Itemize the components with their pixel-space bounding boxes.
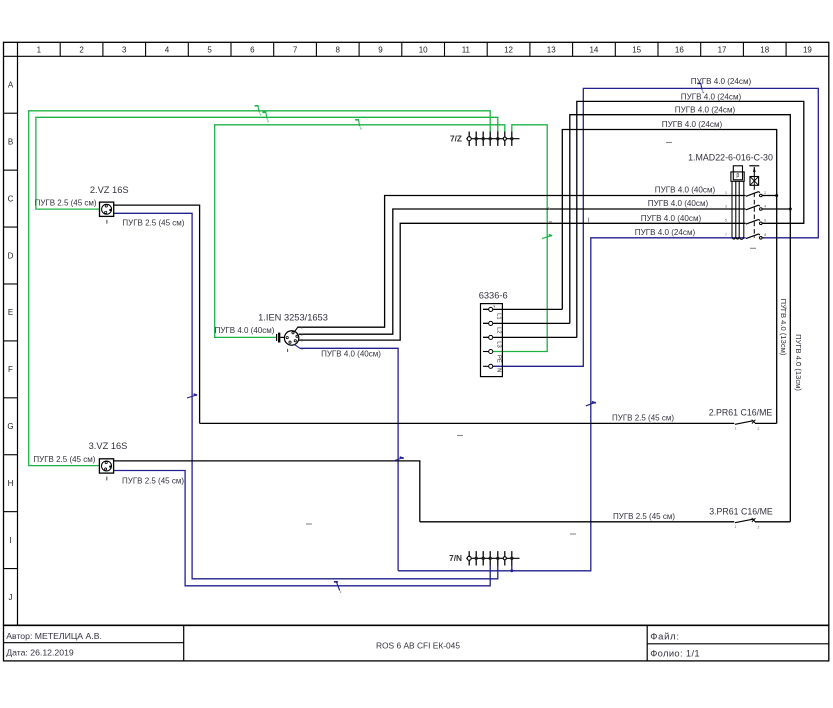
svg-text:ПУГВ 4.0 (24см): ПУГВ 4.0 (24см) xyxy=(681,92,742,101)
svg-text:6336-6: 6336-6 xyxy=(479,291,508,301)
svg-text:11: 11 xyxy=(462,46,471,55)
svg-text:7/N: 7/N xyxy=(449,553,462,563)
svg-text:14: 14 xyxy=(589,46,598,55)
svg-text:5: 5 xyxy=(725,219,727,223)
svg-text:ПУГВ 4.0 (13см): ПУГВ 4.0 (13см) xyxy=(794,334,803,391)
svg-text:1.IEN 3253/1653: 1.IEN 3253/1653 xyxy=(258,312,328,322)
svg-text:2: 2 xyxy=(79,46,84,55)
svg-text:3: 3 xyxy=(725,204,727,208)
svg-text:Дата: 26.12.2019: Дата: 26.12.2019 xyxy=(6,648,74,658)
svg-text:16: 16 xyxy=(675,46,684,55)
svg-text:2.VZ 16S: 2.VZ 16S xyxy=(90,185,129,195)
svg-text:N: N xyxy=(496,368,502,372)
svg-text:ПУГВ 2.5 (45 см): ПУГВ 2.5 (45 см) xyxy=(612,413,674,422)
svg-text:ПУГВ 4.0 (24см): ПУГВ 4.0 (24см) xyxy=(635,228,696,237)
svg-text:1: 1 xyxy=(735,427,737,431)
svg-text:ПУГВ 4.0 (40см): ПУГВ 4.0 (40см) xyxy=(215,326,275,335)
svg-text:ПУГВ 2.5 (45 см): ПУГВ 2.5 (45 см) xyxy=(122,477,184,486)
svg-text:2: 2 xyxy=(301,333,303,337)
svg-text:6: 6 xyxy=(764,219,766,223)
svg-text:G: G xyxy=(7,422,13,431)
svg-text:J: J xyxy=(9,593,13,602)
svg-text:7: 7 xyxy=(293,46,298,55)
svg-text:PE: PE xyxy=(496,355,502,363)
svg-text:F: F xyxy=(8,365,13,374)
svg-text:E: E xyxy=(8,308,13,317)
svg-text:3.PR61 C16/ME: 3.PR61 C16/ME xyxy=(709,507,773,517)
svg-text:2: 2 xyxy=(758,427,760,431)
svg-text:3.VZ 16S: 3.VZ 16S xyxy=(89,441,128,451)
svg-text:3: 3 xyxy=(122,46,127,55)
svg-text:ПУГВ 4.0 (40см): ПУГВ 4.0 (40см) xyxy=(655,185,716,194)
svg-text:2.PR61 C16/ME: 2.PR61 C16/ME xyxy=(709,408,773,418)
svg-text:Автор: МЕТЕЛИЦА А.В.: Автор: МЕТЕЛИЦА А.В. xyxy=(6,631,102,641)
svg-text:ПУГВ 4.0 (40см): ПУГВ 4.0 (40см) xyxy=(648,199,709,208)
svg-text:ПУГВ 2.5 (45 см): ПУГВ 2.5 (45 см) xyxy=(33,455,95,464)
svg-text:ПУГВ 2.5 (45 см): ПУГВ 2.5 (45 см) xyxy=(35,199,97,208)
svg-text:7: 7 xyxy=(725,233,727,237)
svg-text:1: 1 xyxy=(37,46,42,55)
svg-text:4: 4 xyxy=(301,347,303,351)
svg-text:4: 4 xyxy=(764,204,766,208)
svg-text:8: 8 xyxy=(764,233,766,237)
svg-text:C: C xyxy=(8,194,14,203)
svg-text:Файл:: Файл: xyxy=(650,632,680,643)
svg-text:ПУГВ 2.5 (45 см): ПУГВ 2.5 (45 см) xyxy=(122,218,184,227)
svg-text:6: 6 xyxy=(250,46,255,55)
svg-text:19: 19 xyxy=(803,46,812,55)
svg-text:Фолио: 1/1: Фолио: 1/1 xyxy=(650,648,700,659)
svg-text:1: 1 xyxy=(301,326,303,330)
svg-text:L3: L3 xyxy=(496,341,502,347)
svg-text:1: 1 xyxy=(735,525,737,529)
svg-text:L2: L2 xyxy=(496,327,502,333)
svg-text:12: 12 xyxy=(504,46,513,55)
svg-text:3: 3 xyxy=(301,339,303,343)
svg-text:9: 9 xyxy=(378,46,383,55)
svg-text:8: 8 xyxy=(336,46,341,55)
svg-text:ПУГВ 4.0 (40см): ПУГВ 4.0 (40см) xyxy=(641,214,702,223)
svg-text:H: H xyxy=(8,479,14,488)
svg-text:15: 15 xyxy=(632,46,641,55)
svg-text:ROS 6 АВ CFI ЕК-045: ROS 6 АВ CFI ЕК-045 xyxy=(376,640,460,650)
svg-text:ПУГВ 4.0 (40см): ПУГВ 4.0 (40см) xyxy=(321,350,381,359)
svg-text:17: 17 xyxy=(718,46,727,55)
svg-text:ПУГВ 4.0 (13см): ПУГВ 4.0 (13см) xyxy=(779,299,788,356)
svg-text:1.MAD22-6-016-C-30: 1.MAD22-6-016-C-30 xyxy=(688,153,773,163)
svg-text:ПУГВ 4.0 (24см): ПУГВ 4.0 (24см) xyxy=(691,77,752,86)
svg-text:10: 10 xyxy=(419,46,428,55)
svg-text:18: 18 xyxy=(760,46,769,55)
svg-text:ПУГВ 4.0 (24см): ПУГВ 4.0 (24см) xyxy=(675,106,736,115)
svg-text:2: 2 xyxy=(764,191,766,195)
svg-text:I: I xyxy=(9,536,11,545)
svg-text:13: 13 xyxy=(547,46,556,55)
svg-text:7/Z: 7/Z xyxy=(450,134,462,144)
svg-text:D: D xyxy=(8,251,14,260)
svg-text:4: 4 xyxy=(165,46,170,55)
svg-text:ПУГВ 4.0 (24см): ПУГВ 4.0 (24см) xyxy=(662,120,723,129)
svg-text:B: B xyxy=(8,137,13,146)
svg-text:ПУГВ 2.5 (45 см): ПУГВ 2.5 (45 см) xyxy=(613,512,675,521)
svg-text:5: 5 xyxy=(207,46,212,55)
svg-text:L1: L1 xyxy=(496,313,502,319)
svg-text:β: β xyxy=(736,173,739,179)
svg-text:1: 1 xyxy=(725,191,727,195)
svg-text:2: 2 xyxy=(758,525,760,529)
svg-text:A: A xyxy=(8,81,14,90)
